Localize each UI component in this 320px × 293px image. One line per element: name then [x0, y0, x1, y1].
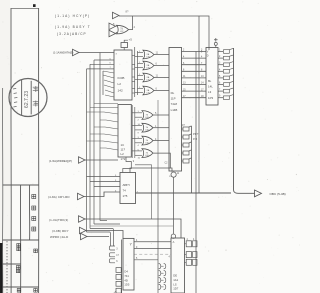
- svg-text:1?5: 1?5: [123, 194, 128, 198]
- svg-text:(4-8A) CRY-RD: (4-8A) CRY-RD: [48, 195, 70, 199]
- svg-text:A: A: [173, 240, 175, 244]
- svg-text:L3: L3: [208, 90, 212, 94]
- svg-text:(1-9A) BUSY T: (1-9A) BUSY T: [55, 25, 91, 29]
- svg-text:(3-9B) RDY: (3-9B) RDY: [52, 229, 69, 233]
- svg-text:(1-3A)TRK(3): (1-3A)TRK(3): [49, 218, 68, 222]
- svg-text:14L: 14L: [208, 85, 213, 89]
- svg-text:74: 74: [123, 189, 127, 193]
- svg-text:62.7.23: 62.7.23: [24, 91, 30, 108]
- svg-text:WPRO (4A-D: WPRO (4A-D: [50, 235, 68, 239]
- svg-text:PR?: PR?: [193, 132, 199, 136]
- svg-text:11?: 11?: [121, 148, 126, 152]
- svg-text:1C: 1C: [121, 143, 125, 147]
- svg-text:D4: D4: [124, 270, 128, 274]
- svg-text:(1-5A)WDREQ(P): (1-5A)WDREQ(P): [49, 159, 72, 163]
- svg-text:1P3: 1P3: [208, 96, 214, 100]
- svg-text:L2: L2: [118, 82, 122, 86]
- svg-text:L2: L2: [121, 152, 125, 156]
- svg-text:AIB?I: AIB?I: [123, 183, 130, 187]
- svg-text:OBC (5-4B): OBC (5-4B): [270, 192, 286, 196]
- svg-text:DE: DE: [173, 274, 177, 278]
- svg-text:LS: LS: [173, 282, 177, 286]
- svg-text:(3-2A)AB/CP: (3-2A)AB/CP: [57, 32, 87, 36]
- svg-text:1A1: 1A1: [173, 278, 178, 282]
- svg-text:74L8: 74L8: [171, 102, 178, 106]
- svg-text:1D7: 1D7: [173, 287, 179, 291]
- svg-text:(1-1A)WDATA(E): (1-1A)WDATA(E): [53, 51, 73, 55]
- svg-text:+5: +5: [129, 38, 133, 42]
- svg-text:8L: 8L: [208, 79, 212, 83]
- svg-text:741: 741: [124, 274, 129, 278]
- svg-text:D: D: [207, 55, 209, 58]
- svg-text:(1-1A) HCY(P): (1-1A) HCY(P): [55, 14, 90, 18]
- svg-text:DL: DL: [171, 91, 175, 95]
- svg-text:L14B: L14B: [171, 108, 178, 112]
- svg-text:1D5: 1D5: [124, 283, 129, 287]
- svg-text:1?2: 1?2: [121, 157, 126, 161]
- svg-text:4D: 4D: [124, 278, 127, 282]
- svg-text:11P: 11P: [171, 97, 176, 101]
- svg-text:IC0B: IC0B: [118, 76, 125, 80]
- svg-text:P.R: P.R: [193, 137, 197, 141]
- svg-text:142: 142: [118, 88, 123, 92]
